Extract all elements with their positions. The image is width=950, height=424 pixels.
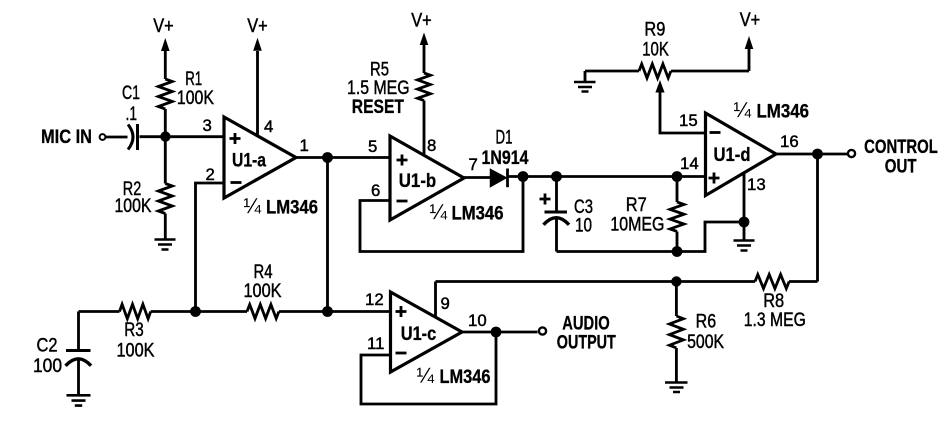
svg-text:¼: ¼ [244,195,262,218]
svg-text:100K: 100K [117,341,155,362]
svg-text:12: 12 [365,290,384,309]
svg-text:U1-a: U1-a [232,151,266,172]
svg-text:100: 100 [33,356,62,377]
svg-text:2: 2 [206,165,215,184]
svg-text:LM346: LM346 [452,204,504,225]
svg-text:7: 7 [469,155,478,174]
svg-text:100K: 100K [177,88,214,109]
svg-text:13: 13 [747,175,766,194]
svg-text:¼: ¼ [734,99,752,122]
svg-text:OUTPUT: OUTPUT [557,332,616,353]
svg-text:5: 5 [368,137,377,156]
svg-text:V+: V+ [411,11,432,32]
svg-text:500K: 500K [687,332,724,353]
svg-text:U1-b: U1-b [399,171,437,192]
svg-text:R1: R1 [185,69,202,90]
svg-text:R9: R9 [644,19,665,40]
svg-text:C2: C2 [37,336,58,357]
svg-text:16: 16 [780,132,799,151]
svg-text:¼: ¼ [430,201,448,224]
svg-text:LM346: LM346 [440,367,491,388]
svg-text:100K: 100K [115,196,152,217]
svg-text:MIC IN: MIC IN [41,127,92,148]
svg-text:100K: 100K [244,281,282,302]
svg-text:¼: ¼ [417,365,435,388]
svg-text:R8: R8 [763,291,784,312]
svg-text:9: 9 [441,294,450,313]
svg-text:4: 4 [264,117,273,136]
svg-text:V+: V+ [153,16,174,37]
svg-text:LM346: LM346 [757,102,810,123]
svg-text:11: 11 [367,334,384,353]
svg-text:R6: R6 [696,312,717,333]
svg-text:LM346: LM346 [266,198,318,219]
svg-text:CONTROL: CONTROL [864,137,938,158]
svg-text:1.3 MEG: 1.3 MEG [744,310,806,331]
svg-text:V+: V+ [247,16,268,37]
svg-text:V+: V+ [740,10,761,31]
svg-text:15: 15 [679,111,698,130]
svg-text:C1: C1 [122,83,140,104]
svg-text:10: 10 [575,216,592,237]
svg-text:3: 3 [203,116,212,135]
svg-text:.1: .1 [126,104,138,125]
svg-text:14: 14 [680,154,699,173]
svg-text:R3: R3 [124,320,144,341]
svg-text:OUT: OUT [885,157,917,178]
svg-text:R4: R4 [254,262,273,283]
svg-text:10: 10 [468,311,487,330]
svg-text:U1-c: U1-c [401,324,437,345]
svg-text:10MEG: 10MEG [610,215,664,236]
svg-text:1N914: 1N914 [482,148,529,169]
svg-text:D1: D1 [496,128,513,149]
svg-text:RESET: RESET [352,97,405,118]
svg-text:8: 8 [427,136,436,155]
svg-text:1: 1 [300,136,309,155]
svg-text:U1-d: U1-d [714,145,751,166]
svg-text:10K: 10K [642,39,669,60]
svg-text:R7: R7 [626,195,647,216]
svg-text:6: 6 [371,181,380,200]
